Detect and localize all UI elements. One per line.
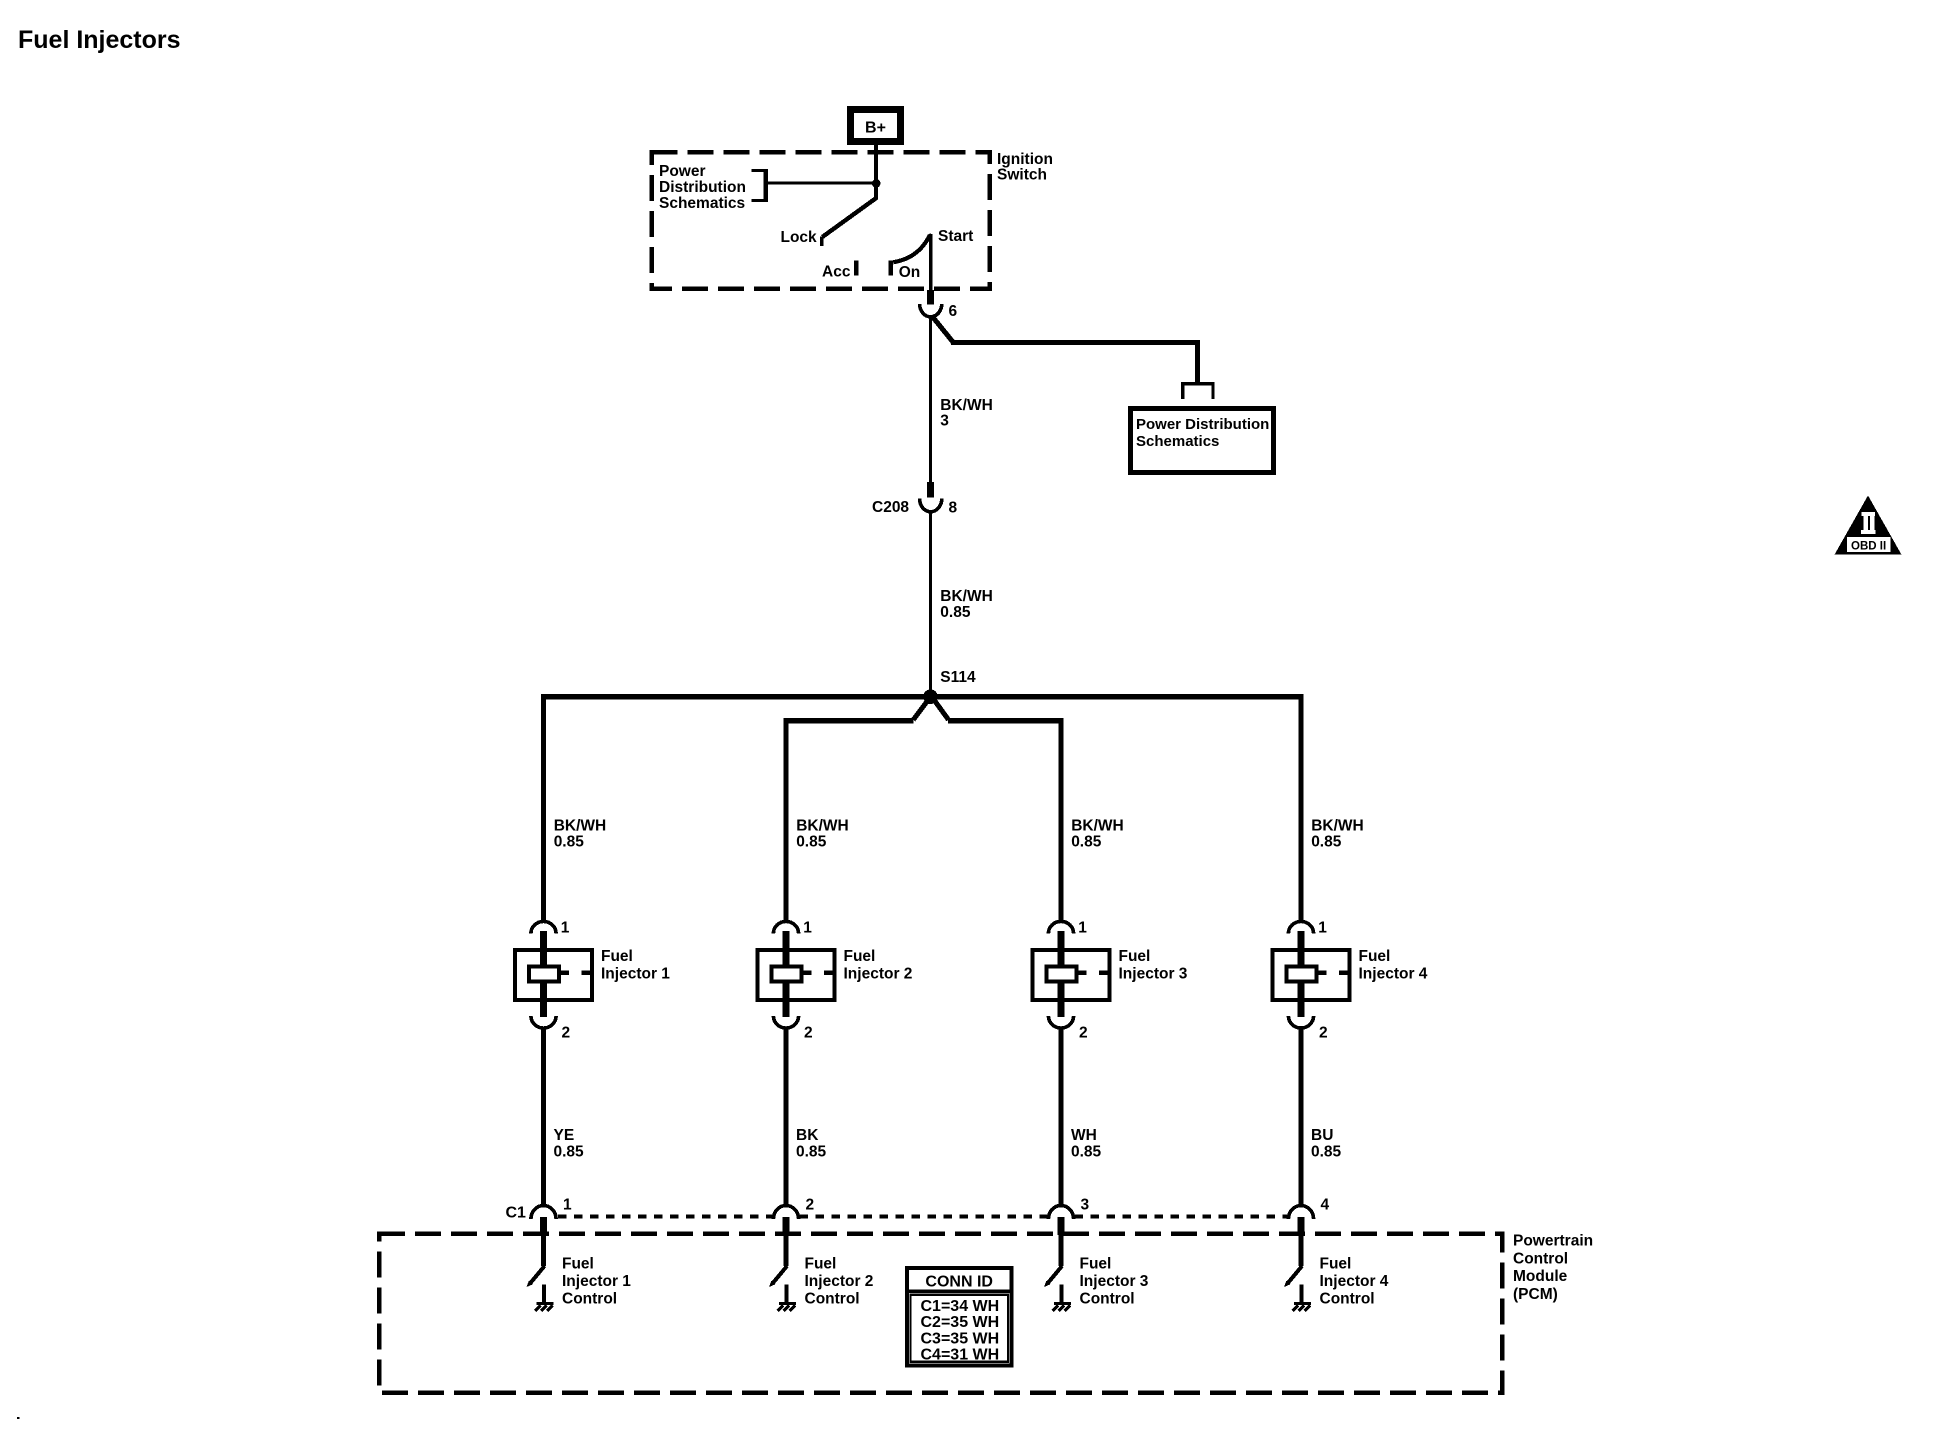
PCM connector C1 arc pin 1: [531, 1206, 556, 1219]
battery terminal B+: [847, 106, 904, 145]
junction node: [872, 179, 881, 188]
svg-text:0.85: 0.85: [554, 1144, 585, 1161]
svg-text:Start: Start: [938, 228, 973, 245]
connector 6 cup: [920, 304, 942, 317]
fuel injector 2 box: [758, 950, 835, 1000]
injector 4 pin 1 stub: [1298, 931, 1305, 967]
injector 2 lower stub: [783, 981, 790, 1017]
switch arc On to Start: [893, 235, 930, 262]
wire PCM pin 2 internal: [784, 1233, 789, 1266]
PCM switch blade 3: [1048, 1266, 1063, 1284]
fuel injector 3 box: [1033, 950, 1110, 1000]
svg-text:Injector 3: Injector 3: [1119, 966, 1188, 983]
PCM pin 4 stub: [1298, 1217, 1305, 1235]
wire branch 4 feed: [1298, 694, 1303, 923]
Power Distribution Schematics box: [1131, 409, 1274, 473]
svg-text:0.85: 0.85: [940, 604, 971, 621]
svg-text:6: 6: [949, 303, 958, 320]
wire branch 2 feed: [783, 718, 788, 923]
PCM switch blade 2: [773, 1266, 788, 1284]
page mark dot: [17, 1417, 19, 1419]
PCM connector C1 arc pin 3: [1048, 1206, 1073, 1220]
svg-text:Schematics: Schematics: [659, 195, 745, 212]
svg-text:Ignition: Ignition: [997, 151, 1053, 168]
svg-text:CONN ID: CONN ID: [925, 1273, 993, 1290]
svg-text:Schematics: Schematics: [1136, 433, 1219, 450]
ground branch 4: [1300, 1285, 1304, 1303]
injector 1 pin 1 connector arc: [531, 921, 556, 933]
wire branch 1 feed: [541, 694, 546, 923]
wire branch 3 feed: [1058, 718, 1063, 923]
svg-text:Fuel: Fuel: [1119, 948, 1151, 965]
svg-text:0.85: 0.85: [1311, 1144, 1342, 1161]
svg-text:Injector 1: Injector 1: [601, 966, 670, 983]
svg-text:1: 1: [803, 920, 812, 937]
svg-text:3: 3: [940, 413, 949, 430]
svg-text:4: 4: [1321, 1197, 1330, 1214]
injector 4 contact dashes: [1319, 971, 1348, 976]
svg-text:Fuel: Fuel: [1080, 1255, 1112, 1272]
wire PCM pin 3 internal: [1059, 1233, 1064, 1266]
svg-text:S114: S114: [940, 669, 976, 686]
svg-text:Fuel: Fuel: [844, 948, 876, 965]
injector 4 pin 1 connector arc: [1288, 921, 1313, 933]
PCM dashed box: [379, 1234, 1502, 1393]
svg-text:On: On: [899, 264, 921, 281]
svg-text:Control: Control: [1320, 1290, 1375, 1307]
wire PCM pin 1 internal: [541, 1233, 546, 1266]
svg-text:Fuel: Fuel: [805, 1255, 837, 1272]
svg-text:Injector 3: Injector 3: [1080, 1273, 1149, 1290]
svg-text:Power Distribution: Power Distribution: [1136, 416, 1269, 433]
wire bracket to junction: [767, 182, 876, 185]
svg-text:C208: C208: [872, 499, 909, 516]
svg-text:1: 1: [563, 1197, 572, 1214]
injector 1 pin 2 cup: [531, 1016, 556, 1028]
switch blade to Lock: [822, 198, 876, 237]
svg-text:2: 2: [1319, 1025, 1328, 1042]
injector 1 contact dashes: [561, 971, 590, 976]
injector 3 lower stub: [1058, 981, 1065, 1017]
svg-text:WH: WH: [1071, 1127, 1097, 1144]
svg-text:C4=31 WH: C4=31 WH: [921, 1347, 1000, 1364]
wire Start down: [929, 234, 933, 291]
svg-text:Control: Control: [562, 1290, 617, 1307]
svg-text:Control: Control: [1080, 1290, 1135, 1307]
svg-text:BK: BK: [796, 1127, 819, 1144]
svg-text:1: 1: [1078, 920, 1087, 937]
injector 1 pin 1 stub: [540, 931, 547, 967]
svg-text:0.85: 0.85: [1311, 833, 1342, 850]
wire injector 4 control: [1299, 1027, 1304, 1206]
receptacle bracket above PDS box: [1183, 384, 1213, 399]
svg-text:C2=35 WH: C2=35 WH: [921, 1314, 1000, 1331]
svg-text:OBD II: OBD II: [1851, 541, 1886, 553]
svg-text:Injector 1: Injector 1: [562, 1273, 631, 1290]
wire branch to power distribution box: [932, 316, 1201, 383]
svg-text:Fuel Injectors: Fuel Injectors: [18, 26, 181, 54]
injector 1 coil: [529, 966, 559, 981]
svg-text:Distribution: Distribution: [659, 179, 746, 196]
wire B+ down: [874, 145, 878, 200]
svg-text:BK/WH: BK/WH: [796, 818, 849, 835]
svg-text:Injector 2: Injector 2: [844, 966, 913, 983]
wire injector 3 control: [1059, 1027, 1064, 1206]
svg-text:Fuel: Fuel: [601, 948, 633, 965]
svg-text:2: 2: [1079, 1025, 1088, 1042]
ground branch 3: [1060, 1285, 1064, 1303]
svg-text:0.85: 0.85: [1071, 833, 1102, 850]
svg-text:(PCM): (PCM): [1513, 1286, 1558, 1303]
svg-text:0.85: 0.85: [1071, 1144, 1102, 1161]
svg-text:0.85: 0.85: [554, 833, 585, 850]
bracket to Power Distribution Schematics: [752, 171, 766, 201]
svg-text:3: 3: [1081, 1197, 1090, 1214]
PCM pin 1 stub: [540, 1217, 547, 1235]
On contact tick: [889, 261, 894, 276]
OBD II icon: [1835, 496, 1902, 555]
injector 4 lower stub: [1298, 981, 1305, 1017]
injector 2 pin 2 cup: [773, 1016, 798, 1028]
svg-text:Control: Control: [805, 1290, 860, 1307]
svg-text:Fuel: Fuel: [1320, 1255, 1352, 1272]
injector 4 pin 2 cup: [1288, 1016, 1313, 1028]
svg-text:Lock: Lock: [781, 229, 818, 246]
svg-text:2: 2: [806, 1197, 815, 1214]
PCM connector C1 arc pin 2: [773, 1206, 798, 1219]
svg-text:BU: BU: [1311, 1127, 1333, 1144]
svg-text:Injector 2: Injector 2: [805, 1273, 874, 1290]
injector 3 coil: [1047, 966, 1077, 981]
fuel injector 1 box: [515, 950, 592, 1000]
svg-text:0.85: 0.85: [796, 1144, 827, 1161]
svg-text:C1=34 WH: C1=34 WH: [921, 1298, 1000, 1315]
svg-text:C3=35 WH: C3=35 WH: [921, 1330, 1000, 1347]
svg-text:BK/WH: BK/WH: [940, 397, 993, 414]
wire injector 1 control: [541, 1027, 546, 1206]
svg-text:BK/WH: BK/WH: [1071, 818, 1124, 835]
svg-text:BK/WH: BK/WH: [554, 818, 607, 835]
wire injector 2 control: [784, 1027, 789, 1206]
injector 3 pin 1 stub: [1058, 931, 1065, 967]
svg-text:Control: Control: [1513, 1251, 1568, 1268]
svg-text:C1: C1: [506, 1205, 527, 1222]
PCM switch blade 4: [1288, 1266, 1303, 1284]
svg-text:Powertrain: Powertrain: [1513, 1233, 1593, 1250]
svg-text:8: 8: [949, 500, 958, 517]
splice S114 dot: [923, 689, 938, 704]
svg-text:0.85: 0.85: [796, 833, 827, 850]
svg-text:1: 1: [1318, 920, 1327, 937]
CONN ID box: [907, 1268, 1012, 1366]
svg-text:Injector 4: Injector 4: [1320, 1273, 1389, 1290]
PCM pin 3 stub: [1058, 1217, 1065, 1235]
injector 3 pin 1 connector arc: [1048, 921, 1073, 933]
connector C208 stub: [927, 482, 934, 498]
injector 2 pin 1 stub: [783, 931, 790, 967]
inner bus: [783, 718, 1063, 723]
PCM pin 2 stub: [783, 1217, 790, 1235]
svg-text:Acc: Acc: [822, 264, 851, 281]
svg-text:Fuel: Fuel: [1359, 948, 1391, 965]
svg-text:BK/WH: BK/WH: [940, 588, 993, 605]
fuel injector 4 box: [1273, 950, 1350, 1000]
injector 3 contact dashes: [1079, 971, 1108, 976]
ignition switch dashed box: [652, 152, 990, 289]
svg-text:1: 1: [561, 920, 570, 937]
svg-text:B+: B+: [865, 120, 886, 137]
svg-text:Fuel: Fuel: [562, 1255, 594, 1272]
svg-text:Module: Module: [1513, 1268, 1568, 1285]
ground branch 2: [785, 1285, 789, 1303]
svg-text:2: 2: [804, 1025, 813, 1042]
PCM connector C1 arc pin 4: [1288, 1206, 1313, 1219]
wire PCM pin 4 internal: [1299, 1233, 1304, 1266]
wire C208 to S114: [929, 512, 932, 694]
injector 4 coil: [1287, 966, 1317, 981]
svg-text:2: 2: [562, 1025, 571, 1042]
wire connector6 to C208: [929, 316, 932, 483]
Acc contact tick: [854, 261, 858, 276]
connector pin stub (ignition switch pin 6): [927, 290, 934, 305]
injector 3 pin 2 cup: [1048, 1016, 1073, 1028]
ground branch 1: [542, 1285, 546, 1303]
injector 2 contact dashes: [804, 971, 833, 976]
svg-text:BK/WH: BK/WH: [1311, 818, 1364, 835]
dotted connector line C1: [558, 1215, 1288, 1219]
splice bus: [541, 694, 1304, 699]
svg-text:Injector 4: Injector 4: [1359, 966, 1428, 983]
svg-text:YE: YE: [554, 1127, 575, 1144]
injector 2 coil: [772, 966, 802, 981]
svg-text:Switch: Switch: [997, 167, 1047, 184]
injector 1 lower stub: [540, 981, 547, 1017]
svg-text:Power: Power: [659, 163, 706, 180]
injector 2 pin 1 connector arc: [773, 921, 798, 933]
splice diagonals: [913, 701, 948, 720]
connector C208 cup: [920, 499, 942, 512]
PCM switch blade 1: [530, 1266, 545, 1284]
